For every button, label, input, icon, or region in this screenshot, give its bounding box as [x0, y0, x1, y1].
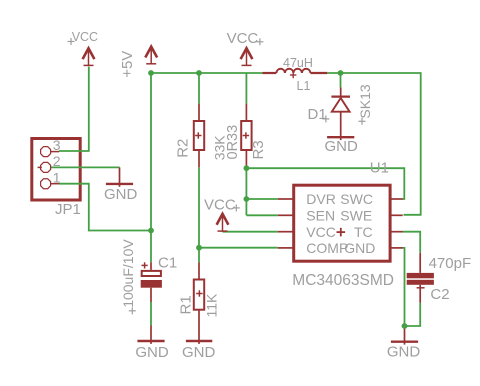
svg-text:GND: GND	[344, 240, 375, 256]
svg-text:R1: R1	[178, 295, 195, 314]
svg-text:SK13: SK13	[357, 84, 373, 118]
svg-text:SWC: SWC	[340, 191, 373, 207]
svg-text:C1: C1	[158, 254, 177, 271]
svg-text:R2: R2	[174, 139, 191, 158]
svg-text:R3: R3	[250, 140, 267, 159]
svg-text:VCC: VCC	[204, 196, 236, 213]
svg-text:SEN: SEN	[306, 207, 335, 223]
svg-text:100uF/10V: 100uF/10V	[120, 239, 136, 308]
svg-text:47uH: 47uH	[283, 56, 313, 70]
svg-text:COMP: COMP	[306, 240, 348, 256]
svg-text:GND: GND	[387, 344, 421, 361]
svg-text:VCC: VCC	[227, 30, 259, 47]
svg-text:GND: GND	[135, 344, 169, 361]
svg-text:DVR: DVR	[306, 191, 336, 207]
svg-text:GND: GND	[182, 344, 216, 361]
svg-text:470pF: 470pF	[429, 255, 472, 272]
svg-text:+5V: +5V	[119, 51, 136, 78]
svg-text:1: 1	[53, 170, 61, 186]
svg-text:VCC: VCC	[306, 224, 336, 240]
svg-text:L1: L1	[297, 79, 311, 93]
svg-text:0R33: 0R33	[225, 125, 241, 160]
svg-text:JP1: JP1	[55, 201, 81, 218]
svg-text:SWE: SWE	[340, 207, 372, 223]
svg-text:C2: C2	[430, 286, 449, 303]
svg-text:TC: TC	[354, 224, 373, 240]
svg-text:D1: D1	[308, 106, 327, 123]
svg-text:GND: GND	[104, 186, 138, 203]
svg-text:U1: U1	[370, 160, 389, 177]
svg-text:3: 3	[53, 137, 61, 153]
svg-text:11K: 11K	[203, 293, 219, 318]
svg-text:VCC: VCC	[72, 30, 98, 44]
svg-text:MC34063SMD: MC34063SMD	[292, 272, 394, 289]
svg-text:GND: GND	[325, 138, 359, 155]
svg-text:2: 2	[53, 153, 61, 169]
